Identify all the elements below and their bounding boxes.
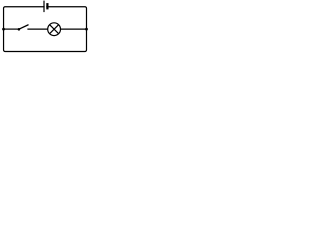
wire: middle branch between switch and lamp (27, 28, 47, 30)
wire loop (outer circuit rectangle) (4, 7, 87, 52)
lamp L1 (48, 23, 61, 36)
node: right junction dot (85, 28, 88, 31)
wire: middle branch right (61, 28, 87, 30)
switch S1 (open) (18, 25, 29, 31)
wire: middle branch left (4, 28, 19, 30)
node: left junction dot (2, 28, 5, 31)
battery B1 (44, 1, 47, 13)
